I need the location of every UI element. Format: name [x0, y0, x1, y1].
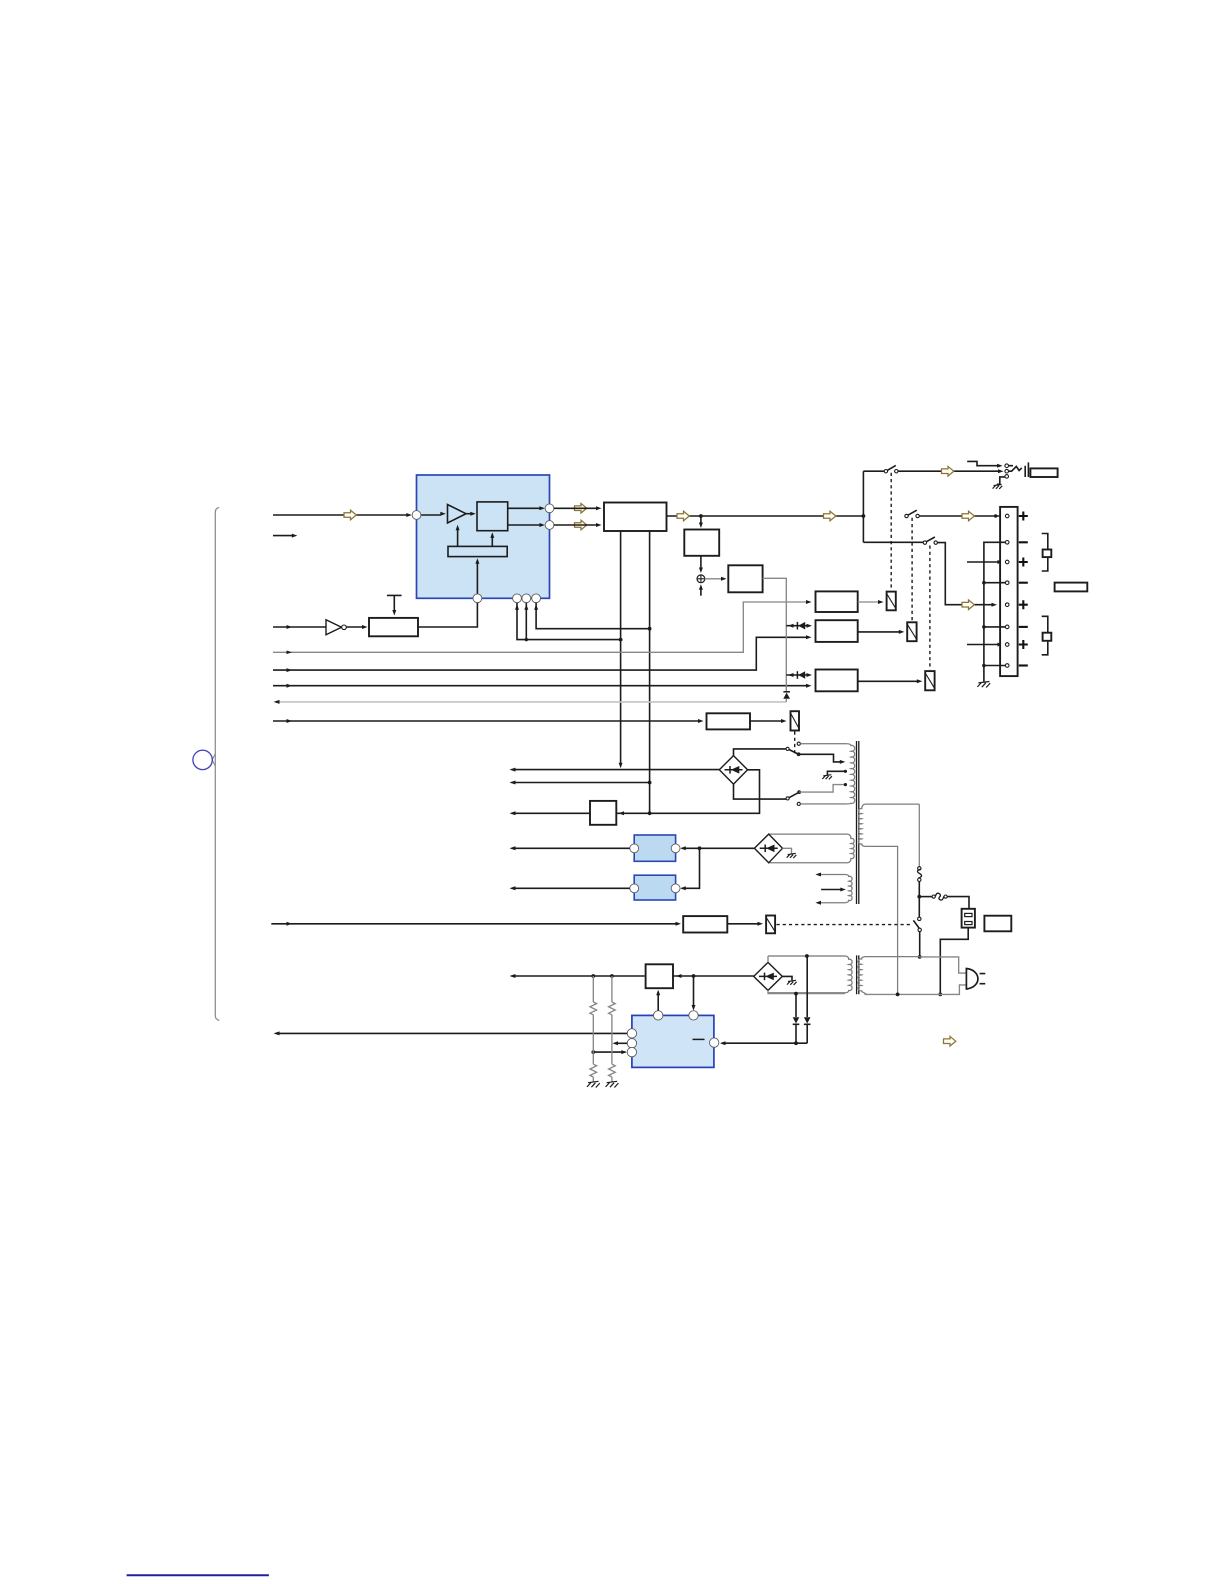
ground G2 (speaker common) — [977, 682, 990, 688]
transformer T2 winding secondary — [768, 956, 852, 993]
wire: input stub — [273, 534, 297, 538]
ground G1 (jack) — [993, 484, 1003, 489]
node circle U1 ctl pin2 — [522, 594, 531, 603]
wire: standby bus to relay driver 4 — [273, 719, 704, 723]
wire: R-channel stub to jack — [967, 461, 1002, 467]
wire: minus return bus — [982, 542, 1005, 682]
ground G6 (R3) — [587, 1081, 600, 1087]
voltage selector SW1b — [786, 790, 801, 805]
voltage selector SW1a — [786, 742, 800, 756]
label t1 plus — [1019, 512, 1028, 521]
wire: rail 4 from IC2 — [510, 846, 630, 850]
wire: BR1 AC bottom to selector — [734, 784, 787, 799]
resistor R4 — [609, 1064, 616, 1081]
wire: +B rail 1 — [510, 768, 720, 772]
wire: to headphone switch — [863, 470, 884, 472]
block B5 (comparator) — [728, 565, 762, 592]
wire: B13 right side feed — [673, 974, 754, 978]
wire: BR2 to ground — [783, 848, 792, 853]
terminal t2 — [1005, 541, 1009, 545]
wire: ctl pin 3 to vertical B — [534, 603, 650, 629]
speaker load LS-C — [1042, 616, 1052, 655]
ground G4 (BR2) — [787, 853, 797, 858]
block B13 (standby regulator) — [646, 964, 673, 988]
headphone jack J1 — [1005, 462, 1058, 478]
linkage: RY1 to switch S1 — [890, 473, 892, 590]
label t6 minus — [1019, 626, 1028, 628]
signal flow arrow A4 — [677, 511, 689, 521]
wire: detector to summing point — [699, 556, 703, 573]
label t5 plus — [1019, 600, 1028, 609]
relay RY1 — [887, 592, 896, 611]
wire: switch feed vertical — [862, 471, 864, 542]
terminal t6 — [1005, 625, 1009, 629]
summing node S1 — [697, 575, 705, 583]
signal flow arrow A7 — [962, 511, 974, 521]
block B8 (relay driver 3) — [816, 670, 858, 692]
node circle IC2 in — [671, 844, 680, 853]
speaker load LS-A — [1042, 534, 1052, 572]
wire: rail 3 through regulator block — [510, 770, 760, 816]
wire: W1 top end — [800, 743, 847, 745]
block B10 (relay driver 4) — [707, 713, 751, 729]
wire: driver4 to relay RY4 — [750, 719, 787, 723]
wire: driver5 to relay RY5 — [727, 922, 763, 926]
transformer T1 core — [857, 741, 859, 904]
node circle U1 input — [412, 511, 421, 520]
wire: feedback vertical B from U2 — [648, 531, 652, 815]
wire: U1 outputs to node circles — [508, 506, 545, 527]
switch S2 (speaker A) — [905, 510, 920, 518]
wire: BR1 AC top to selector — [734, 749, 787, 756]
ground G3 (W1 tap) — [822, 775, 832, 780]
resistor R3 — [590, 1064, 597, 1081]
signal flow arrow A1 — [344, 510, 356, 520]
wire: driver3 to relay RY3 — [858, 679, 923, 683]
node circle IC3 vtop1 — [654, 1011, 663, 1020]
node circle U1 out L — [545, 504, 554, 513]
wire: U2 output line — [667, 514, 866, 518]
switch S1 (headphone mute) — [884, 465, 898, 473]
transformer T1 winding W3 — [815, 873, 852, 905]
signal flow arrow A3 — [575, 520, 587, 530]
wire: bus line to relay driver 2 — [273, 635, 812, 672]
IC U2 (power amplifier block) — [604, 503, 667, 532]
wire: standby rail to B13 — [510, 974, 645, 978]
linkage: RY3 to switch S3 — [929, 546, 931, 670]
transformer T1 winding W2 (mains side) — [858, 804, 919, 994]
terminal t8 — [1005, 664, 1009, 668]
wire: switch to T2 primary — [918, 932, 922, 959]
wire: jack sleeve to ground — [997, 477, 1005, 484]
wire: BR2 output to regulators — [680, 846, 754, 890]
bridge rectifier BR1 — [719, 756, 747, 785]
accessory box B12 — [984, 916, 1011, 932]
wire: speaker B+ stub row7 — [967, 643, 1003, 647]
transformer T2 core — [857, 955, 859, 994]
node circle U1 ctl pin1 — [513, 594, 522, 603]
relay RY3 — [925, 671, 934, 690]
node circle U1 ctl pin3 — [532, 594, 541, 603]
sensor T1 (antenna mark) — [387, 595, 402, 615]
linkage: RY5 to power switch — [777, 924, 912, 926]
wire: standby feed into IC3 — [692, 976, 696, 1011]
wire: AC live to plug — [920, 957, 967, 973]
op-amp A1 inside U1 — [421, 505, 466, 524]
wire: BR3 AC top — [768, 954, 845, 962]
node circle IC3 pin L3 — [627, 1047, 636, 1056]
label t8 minus — [1019, 664, 1028, 666]
block B4 (detector) — [684, 530, 719, 556]
bridge rectifier BR2 — [754, 834, 782, 863]
node circle U1 mute pin — [473, 594, 482, 603]
wire: W2 to breaker — [918, 804, 920, 867]
AC plug P1 — [966, 969, 985, 990]
node circle IC3 pin R — [710, 1038, 719, 1047]
control bar B2 inside U1 — [448, 525, 507, 557]
wire: power-on bus to relay driver 5 — [271, 922, 681, 926]
wire: comparator output down feedback — [763, 578, 787, 692]
regulator IC2b (blue) — [634, 875, 675, 900]
wire: mute control into U1 bottom — [475, 558, 479, 594]
wire: selector bottom tap — [799, 783, 847, 792]
bridge rectifier BR3 — [754, 962, 783, 990]
wire: BR3 to ground — [782, 976, 792, 980]
wire: IC3 sense tap L2 — [613, 1041, 628, 1045]
diode D1 (rectifier) — [793, 994, 800, 1046]
label t3 plus — [1019, 558, 1028, 567]
footer rule — [127, 1574, 269, 1576]
node circle IC2b in — [671, 884, 680, 893]
terminal t7 — [1005, 643, 1009, 647]
wire: gray bus line to relay driver 1 — [273, 600, 812, 654]
wire: reference stub into summing node — [699, 584, 703, 596]
wire: MCU bus line out — [274, 1031, 628, 1035]
signal flow arrow A2 — [575, 503, 587, 513]
block B1 inside U1 — [466, 502, 508, 531]
signal flow arrow A9 — [944, 1036, 956, 1046]
ground G5 (BR3) — [787, 980, 797, 985]
wire: W3 center tap stub — [821, 888, 846, 892]
speaker load LS-B — [1055, 583, 1088, 592]
wire: driver2 to relay RY2 — [858, 630, 905, 634]
resistor R2 — [609, 976, 616, 1064]
MCU IC3 (system control, blue) — [632, 1015, 714, 1067]
wire: inverter to level block — [346, 625, 367, 629]
block B9 (rail regulator) — [590, 801, 616, 825]
label t2 minus — [1019, 541, 1028, 543]
linkage: RY2 to switch S2 — [911, 518, 913, 621]
wire: W1 ground tap — [827, 770, 847, 775]
terminal t5 — [1005, 603, 1009, 607]
relay RY4 — [791, 711, 800, 730]
wire: main input line to IC1 — [273, 513, 412, 517]
IC U1 (input/protection IC, blue block) — [417, 475, 550, 598]
wire: U2 out branch down to detector — [699, 516, 703, 528]
wire: bus line to relay driver 3 — [273, 684, 812, 688]
inverter Q1 — [326, 620, 346, 635]
diode D4 branch to relay driver 3 — [786, 671, 812, 679]
wire: IC3 to B13 — [656, 990, 660, 1011]
signal flow arrow A6 — [942, 466, 954, 476]
label t4 minus — [1019, 582, 1028, 584]
wire: summing node to comparator — [705, 577, 727, 581]
regulator IC2 (blue) — [634, 835, 675, 861]
transformer T1 winding W1 — [847, 744, 855, 804]
block B7 (relay driver 2) — [816, 620, 858, 642]
wire: rail 2 — [510, 781, 650, 785]
wire: IC3 sense tap L3 — [591, 1050, 626, 1054]
wire: filter down to AC line — [938, 928, 968, 997]
wire: feedback vertical A from U2 — [619, 531, 623, 768]
speaker terminal strip TB1 — [1000, 507, 1018, 676]
relay RY5 — [766, 916, 775, 934]
wire: light gray return bus — [274, 700, 787, 704]
node circle IC2 out — [630, 844, 639, 853]
node circle IC3 pin L1 — [627, 1029, 636, 1038]
diode D3 branch to relay driver 2 — [786, 622, 812, 630]
wire: fuse to line filter — [947, 897, 969, 909]
wire: level block to U1 mute pin — [418, 603, 477, 627]
wire: AC neutral line — [865, 985, 967, 996]
signal flow arrow A8 — [962, 600, 974, 610]
wire: mute line with inverter — [273, 625, 326, 629]
block B3 (mute level) — [369, 618, 418, 636]
resistor R1 — [590, 976, 597, 1064]
breaker CB1 — [917, 867, 921, 882]
block B11 (relay driver 5) — [683, 916, 727, 932]
block B6 (relay driver 1) — [816, 591, 858, 612]
switch S3 (speaker B) — [923, 537, 937, 544]
node circle U1 out R — [545, 521, 554, 530]
line filter C1 — [962, 909, 975, 928]
terminal t4 — [1005, 581, 1009, 585]
ground G7 (R4) — [606, 1081, 619, 1087]
wire: speaker B+ stub row3 — [967, 560, 1003, 564]
wire: selector top tap — [799, 754, 846, 764]
label t7 plus — [1019, 640, 1028, 649]
node bubble P (blue circle) — [193, 750, 212, 769]
node circle IC3 vtop2 — [689, 1011, 698, 1020]
node circle IC2b out — [630, 884, 639, 893]
wire: S3 to terminal row5 — [937, 543, 997, 607]
wire: S1 to headphone jack — [898, 469, 1004, 473]
relay RY2 — [907, 622, 916, 641]
wire: BR3 AC bottom — [768, 990, 845, 995]
linkage: RY4 to selector — [794, 732, 796, 756]
wire: rail 5 from IC2b — [510, 886, 630, 890]
wire: S2 to terminal row1 — [919, 514, 1005, 517]
wire: W1 bottom end — [800, 803, 847, 805]
wire: ctl pins 1,2 to vertical A — [515, 603, 621, 642]
power switch SW2 — [913, 917, 921, 931]
terminal t3 — [1005, 560, 1009, 564]
wire: rectified supply to MCU — [720, 1041, 807, 1045]
wire: driver1 to relay RY1 — [858, 600, 884, 604]
node circle IC3 pin L2 — [627, 1039, 636, 1048]
diode D5 on feedback line — [783, 692, 790, 702]
signal flow arrow A5 — [824, 511, 836, 521]
transformer T2 winding primary — [858, 957, 920, 995]
wire: to speaker B switch — [863, 541, 923, 543]
wire: U1 outputs to U2 — [554, 506, 602, 527]
wire: breaker to fuse junction — [917, 882, 921, 919]
fuse F1 — [919, 893, 947, 900]
transformer T1 winding W4 — [769, 834, 855, 863]
diode D2 (rectifier) — [804, 956, 811, 1043]
terminal t1 — [1005, 514, 1009, 518]
connector bracket CN1 — [212, 507, 219, 1020]
